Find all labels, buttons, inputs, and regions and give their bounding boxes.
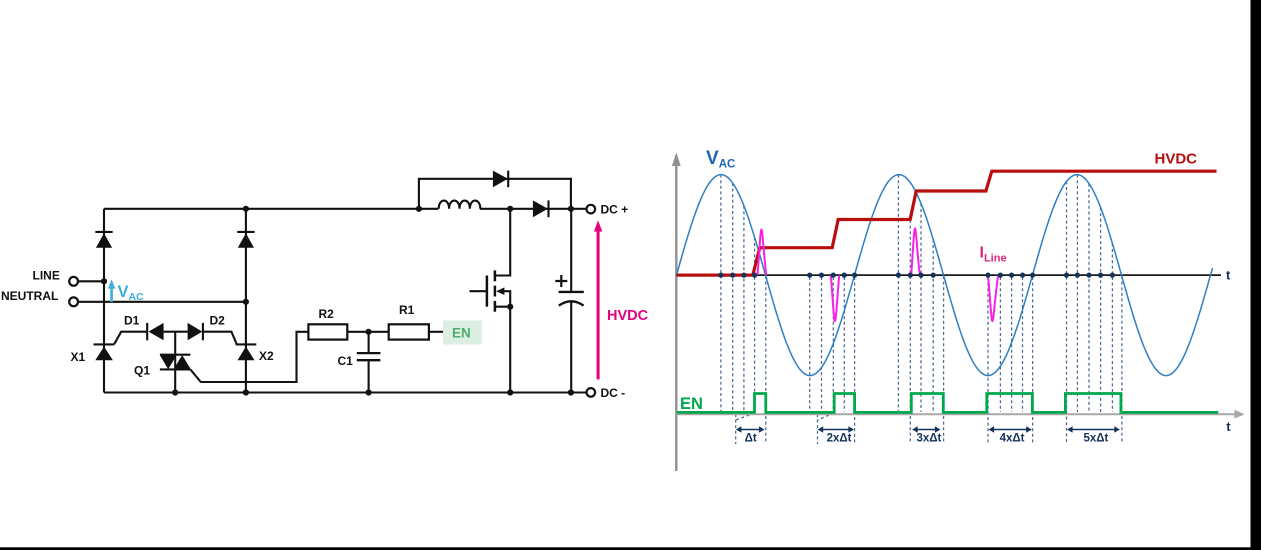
label HVDC graph [1155, 151, 1198, 168]
node dashed timing lines [721, 175, 1122, 444]
diode D2 [188, 323, 203, 340]
label 5xdt arrow [1067, 426, 1120, 444]
svg-text:HVDC: HVDC [1155, 151, 1198, 168]
label X1 [71, 350, 86, 364]
label LINE [33, 269, 60, 283]
svg-text:DC +: DC + [601, 203, 629, 217]
transistor Q2 MOSFET [470, 209, 511, 393]
wire Q1 branch [174, 332, 176, 393]
label EN graph [680, 395, 703, 413]
label dt arrow [736, 426, 765, 444]
svg-text:5xΔt: 5xΔt [1084, 433, 1109, 445]
capacitor output [559, 209, 584, 393]
curve EN trace [677, 394, 1219, 413]
diode on second vertical [237, 232, 254, 248]
label 2xdt arrow [818, 426, 854, 444]
svg-text:EN: EN [680, 395, 703, 413]
svg-text:R2: R2 [319, 307, 335, 321]
label NEUTRAL [1, 289, 58, 303]
axis vertical [672, 152, 681, 471]
axis EN time [676, 410, 1244, 419]
svg-text:3xΔt: 3xΔt [917, 433, 942, 445]
label 3xdt arrow [912, 426, 941, 444]
label Q1 [134, 363, 150, 377]
resistor R2 [308, 324, 347, 339]
label D1 [124, 314, 140, 328]
label plus [555, 275, 567, 287]
svg-text:ILine: ILine [980, 245, 1007, 265]
node HVDC arrow [594, 220, 602, 379]
label 4xdt arrow [989, 426, 1032, 444]
diode output [533, 200, 549, 217]
curve ILine pulse 3 [911, 228, 920, 275]
svg-text:Δt: Δt [745, 433, 757, 445]
terminal LINE [69, 277, 104, 286]
svg-text:t: t [1226, 268, 1231, 283]
label t main axis [1226, 268, 1231, 283]
curve ILine pulse 4 [988, 275, 998, 321]
svg-text:EN: EN [452, 326, 471, 341]
diode bypass [493, 171, 508, 188]
svg-text:R1: R1 [399, 303, 415, 317]
svg-text:t: t [1226, 419, 1231, 434]
thyristor Q1 [160, 355, 191, 370]
label VAC [118, 283, 145, 303]
border right bar [1251, 0, 1261, 550]
label R2 [319, 307, 335, 321]
node VAC arrow [108, 279, 115, 302]
label D2 [210, 314, 226, 328]
thyristor X1 [94, 344, 115, 360]
curve HVDC staircase [677, 171, 1217, 275]
label R1 [399, 303, 415, 317]
wire R2-R1 [347, 331, 388, 333]
label C1 [338, 354, 354, 368]
label t EN axis [1226, 419, 1231, 434]
wire left vertical [103, 209, 105, 393]
wire second vertical [245, 209, 247, 393]
svg-text:NEUTRAL: NEUTRAL [1, 289, 58, 303]
svg-text:VAC: VAC [118, 283, 145, 303]
curve ILine pulse 2 [831, 275, 839, 321]
svg-text:D2: D2 [210, 314, 226, 328]
wire bypass branch [419, 179, 571, 209]
label X2 [259, 349, 274, 363]
wire Q1 gate [190, 332, 308, 382]
wire R1-EN [429, 331, 443, 333]
diode D1 [147, 323, 163, 340]
label HVDC [607, 308, 649, 324]
curve VAC sine [677, 175, 1213, 376]
svg-text:X1: X1 [71, 350, 86, 364]
terminal NEUTRAL [69, 297, 246, 306]
node EN box [443, 320, 482, 344]
wire top rail [104, 208, 587, 210]
junction dots [101, 206, 574, 396]
terminal DC+ [587, 203, 629, 217]
wire bottom rail [104, 391, 587, 393]
svg-text:D1: D1 [124, 314, 140, 328]
label ILine graph [980, 245, 1007, 265]
svg-text:HVDC: HVDC [607, 308, 649, 324]
svg-text:4xΔt: 4xΔt [1000, 433, 1025, 445]
thyristor X2 [236, 344, 257, 360]
terminal DC- [587, 386, 626, 400]
diode on left vertical [95, 232, 112, 248]
inductor L1 [439, 201, 481, 209]
svg-text:Q1: Q1 [134, 363, 150, 377]
wire D1-D2 rail [114, 332, 237, 345]
capacitor C1 [357, 332, 381, 393]
svg-text:LINE: LINE [33, 269, 60, 283]
curve ILine pulse 1 [758, 230, 767, 276]
svg-text:C1: C1 [338, 354, 354, 368]
svg-text:2xΔt: 2xΔt [827, 433, 852, 445]
svg-text:X2: X2 [259, 349, 274, 363]
node axis dots [718, 273, 1115, 278]
axis t [676, 274, 1221, 276]
border bottom bar [0, 547, 1261, 550]
svg-text:DC -: DC - [601, 386, 626, 400]
svg-text:VAC: VAC [706, 148, 735, 170]
resistor R1 [389, 324, 429, 339]
label VAC graph [706, 148, 735, 170]
